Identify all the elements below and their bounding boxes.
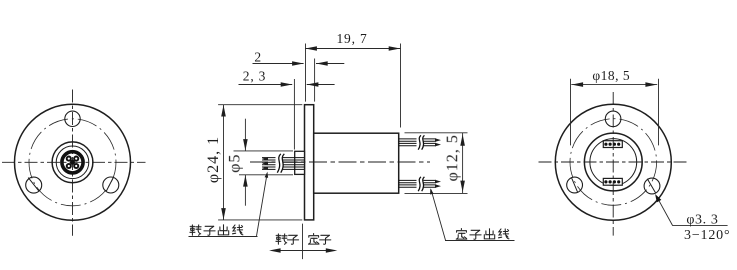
bottom-left screw hole right view	[567, 177, 583, 193]
leader underline rotor lead	[189, 236, 258, 238]
dimension diameter 12,5	[405, 133, 468, 194]
hub boss	[295, 151, 305, 174]
centerline vertical left view	[72, 90, 74, 236]
rotor lead wires (left)	[262, 158, 304, 170]
leader diameter 3,3	[657, 196, 728, 225]
centerline horizontal left view	[2, 161, 146, 163]
screw slot bottom-left	[28, 178, 39, 191]
bore inner circle right view	[590, 139, 637, 186]
svg-text:19, 7: 19, 7	[337, 31, 368, 46]
connector center key	[70, 160, 75, 165]
leader arrowhead rotor lead	[265, 171, 270, 178]
bottom-left screw hole left view	[26, 177, 42, 193]
connector pin 1 (top-left)	[66, 156, 72, 162]
bottom-right screw hole left view	[103, 177, 119, 193]
stator top wire arrowheads	[435, 138, 441, 142]
rotor wire arrowheads	[262, 157, 268, 161]
leader line rotor lead	[257, 177, 267, 237]
bottom-right screw hole right view	[644, 178, 660, 194]
stator top wire break	[417, 135, 424, 150]
centerline horizontal middle view	[250, 161, 430, 163]
flange plate	[305, 105, 314, 220]
svg-text:2, 3: 2, 3	[243, 68, 266, 83]
connector inner ring left view	[56, 146, 89, 179]
rotor/stator divider line	[302, 224, 304, 260]
stator lead wires top group (right)	[399, 139, 436, 146]
rotor wire break symbol	[276, 154, 283, 174]
svg-text:φ5: φ5	[227, 154, 244, 173]
bottom brush block	[603, 178, 622, 185]
flange outer circle right view	[555, 104, 671, 220]
top mounting hole right view	[605, 111, 621, 127]
bolt circle right view	[570, 119, 657, 206]
top brush block	[603, 141, 622, 148]
rotor arrow (left)	[272, 250, 303, 252]
leader line stator lead	[431, 190, 446, 241]
screw slot bottom-left right view	[572, 178, 578, 193]
label stator lead wire 定子出线	[456, 229, 509, 240]
stator bottom wire arrowheads	[435, 180, 441, 184]
flange outer circle left view	[15, 104, 131, 220]
label rotor lead wire 转子出线	[190, 225, 243, 236]
body cylinder	[314, 133, 399, 193]
dimension diameter 5	[234, 119, 294, 206]
bore outer circle right view	[584, 133, 642, 191]
svg-text:φ18, 5: φ18, 5	[592, 68, 630, 83]
screw slot bottom-right	[106, 177, 114, 192]
label 定子 (stator)	[309, 234, 331, 245]
connector pin 3 (bottom-left)	[66, 163, 72, 169]
svg-text:φ3. 3: φ3. 3	[686, 213, 718, 228]
dimension 2,3	[239, 79, 335, 150]
dimension diameter 24,1	[218, 105, 302, 220]
svg-text:2: 2	[254, 50, 261, 65]
svg-text:φ24, 1: φ24, 1	[205, 136, 222, 183]
connector pin 2 (top-right)	[73, 156, 79, 162]
centerline vertical right view	[612, 92, 614, 236]
dimension 19,7	[305, 44, 400, 128]
leader underline stator lead	[445, 240, 515, 242]
leader arrowhead stator lead	[429, 188, 434, 195]
stator arrow (right)	[303, 250, 335, 252]
svg-text:φ12, 5: φ12, 5	[444, 134, 461, 181]
connector outer ring left view	[52, 142, 93, 183]
stator bottom wire break	[417, 177, 424, 192]
top mounting hole left view	[65, 111, 80, 126]
screw slot bottom-right right view	[647, 179, 656, 194]
bolt circle left view (dash-dot)	[29, 119, 116, 206]
dimension 2	[253, 59, 345, 102]
centerline horizontal right view	[539, 161, 688, 163]
leader arrowhead diameter 3,3	[653, 193, 662, 203]
svg-text:3−120°: 3−120°	[684, 228, 730, 243]
label 转子 (rotor)	[276, 234, 299, 245]
stator lead wires bottom group (right)	[399, 180, 436, 187]
connector bold socket ring left view	[62, 152, 83, 173]
connector pin 4 (bottom-right)	[73, 163, 79, 169]
dimension diameter 18,5	[571, 79, 659, 146]
